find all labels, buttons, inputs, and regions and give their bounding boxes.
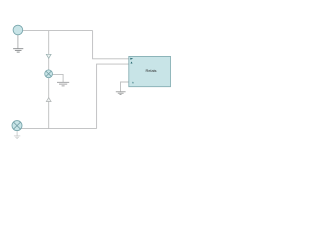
wire branch down from top wire to crossed node [48,31,50,71]
wire stem lamp to ground [16,131,18,136]
pin 1 marker [130,58,133,60]
wire bottom rail from lamp to right vertical [21,128,97,130]
ground G2 right of crossed node [57,82,69,86]
ground G3 below lamp [14,136,20,138]
pin 3 marker [132,82,134,84]
wire from crossed node right to ground [52,74,63,82]
wire stem source to ground [17,35,19,49]
wire relay pin 3 to ground [121,82,129,91]
arrowhead down on branch wire [46,54,51,58]
wire from crossed node bottom down to bottom rail [48,77,50,128]
wire right vertical up to relay pin 2 [97,64,129,128]
ground G1 below source [13,49,23,52]
source circle V1 [13,25,23,35]
ground G4 below relay pin 3 [116,92,126,95]
wire top horizontal from source to right corner [23,30,93,32]
crossed node circle X1 [45,70,53,78]
arrowhead up on lower branch wire [46,98,51,102]
lamp circle X2 [12,121,22,131]
wire right vertical down to relay pin 1 [93,31,129,59]
pin 2 marker [131,62,133,64]
svg-text:Relais: Relais [145,68,156,73]
relay box U1 [129,56,171,86]
